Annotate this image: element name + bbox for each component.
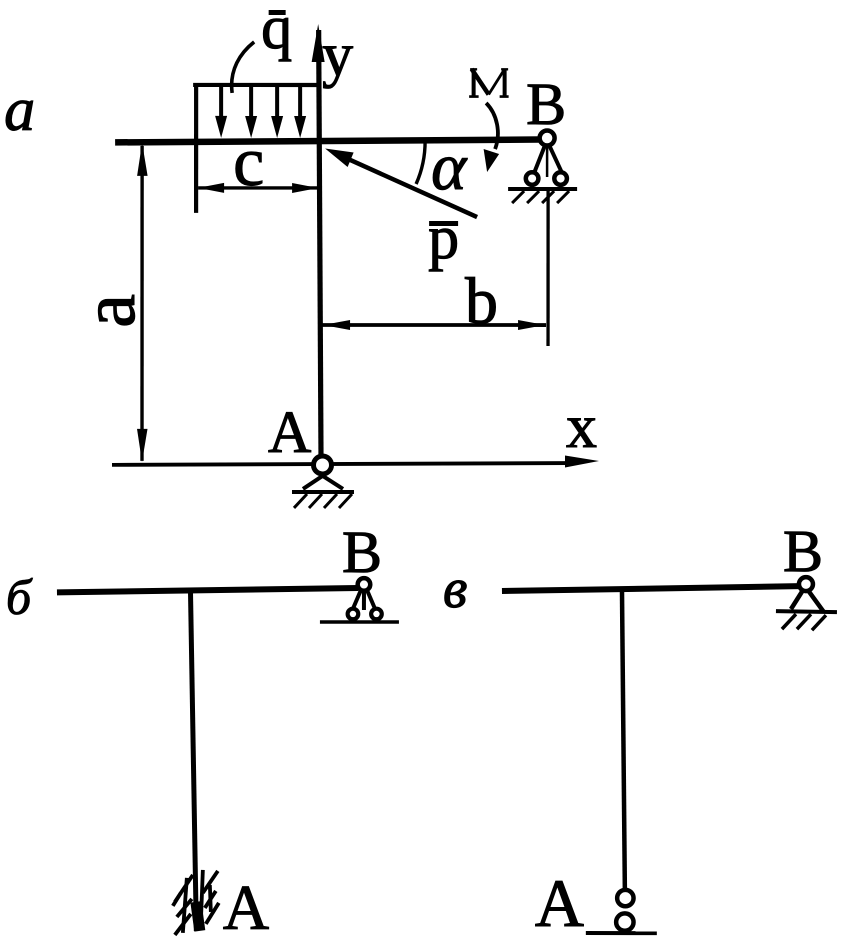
label M — [469, 69, 509, 97]
column / y-axis vertical line — [319, 30, 322, 457]
support A ground line — [292, 490, 354, 494]
dimension b extension line (vertical below B) — [546, 190, 549, 346]
svg-text:б: б — [6, 569, 33, 625]
dimension a line with arrowheads — [137, 143, 148, 462]
svg-text:x: x — [566, 393, 597, 461]
column (б) — [190, 590, 196, 931]
svg-text:B: B — [526, 71, 566, 137]
beam (б) — [57, 588, 358, 593]
svg-text:B: B — [783, 518, 823, 584]
support A hatching — [294, 494, 352, 508]
support B triangle legs — [534, 145, 562, 177]
leader curve from q to load — [232, 42, 255, 93]
label q with overbar — [261, 0, 292, 62]
svg-text:y: y — [322, 21, 353, 89]
beam (horizontal member through corner to B) — [115, 139, 540, 142]
support B rollers (б) — [348, 609, 382, 620]
angle alpha arc — [416, 141, 425, 184]
support B hatching (в) — [782, 614, 826, 630]
support A pin circle — [313, 456, 331, 474]
svg-text:a: a — [67, 294, 151, 328]
support B pin circle — [540, 131, 555, 146]
support B rollers — [526, 172, 567, 185]
roller support A ground line (в) — [586, 931, 657, 935]
svg-text:b: b — [465, 265, 498, 338]
distributed load top line — [193, 83, 319, 87]
svg-text:A: A — [223, 872, 269, 943]
support B pin circle (в) — [799, 577, 813, 591]
label p with overbar — [428, 204, 459, 272]
x-axis line — [112, 463, 570, 465]
dimension b line with arrowheads — [322, 320, 546, 330]
support A triangle legs (crossed) — [303, 471, 343, 489]
x-axis arrowhead — [565, 456, 599, 468]
dimension c line with arrowheads — [198, 183, 318, 193]
beam (в) — [502, 586, 799, 591]
svg-text:A: A — [535, 865, 584, 941]
svg-text:B: B — [342, 519, 382, 585]
load arrow 2 — [245, 87, 257, 138]
svg-text:a: a — [4, 76, 35, 144]
support B triangle legs (б) — [352, 590, 376, 611]
svg-text:A: A — [268, 399, 311, 465]
svg-text:q: q — [261, 0, 292, 62]
dimension c extension line (below beam, left) — [194, 142, 198, 213]
distributed load left edge — [194, 85, 198, 141]
support B ground line (в) — [776, 611, 837, 612]
support B ground line — [508, 187, 577, 191]
svg-text:c: c — [233, 124, 264, 201]
roller support A circles (в) — [616, 890, 633, 931]
y-axis arrowhead — [312, 24, 325, 62]
load arrow 3 — [271, 87, 283, 138]
svg-text:α: α — [431, 130, 468, 204]
moment M arc arrow — [484, 103, 500, 172]
svg-text:p: p — [428, 204, 459, 272]
support B pin circle (б) — [358, 578, 371, 591]
support B triangle legs (в) — [791, 590, 824, 612]
load arrow 1 — [215, 87, 227, 138]
load arrow 4 — [294, 87, 306, 138]
support B ground line (б) — [320, 620, 399, 624]
fixed support A bottom blob (б) — [196, 902, 200, 931]
column (в) — [622, 588, 625, 889]
support B hatching — [512, 191, 569, 203]
svg-text:в: в — [443, 558, 467, 620]
force P arrow (inclined) — [325, 148, 477, 217]
fixed support A hatching (б) — [173, 870, 219, 935]
